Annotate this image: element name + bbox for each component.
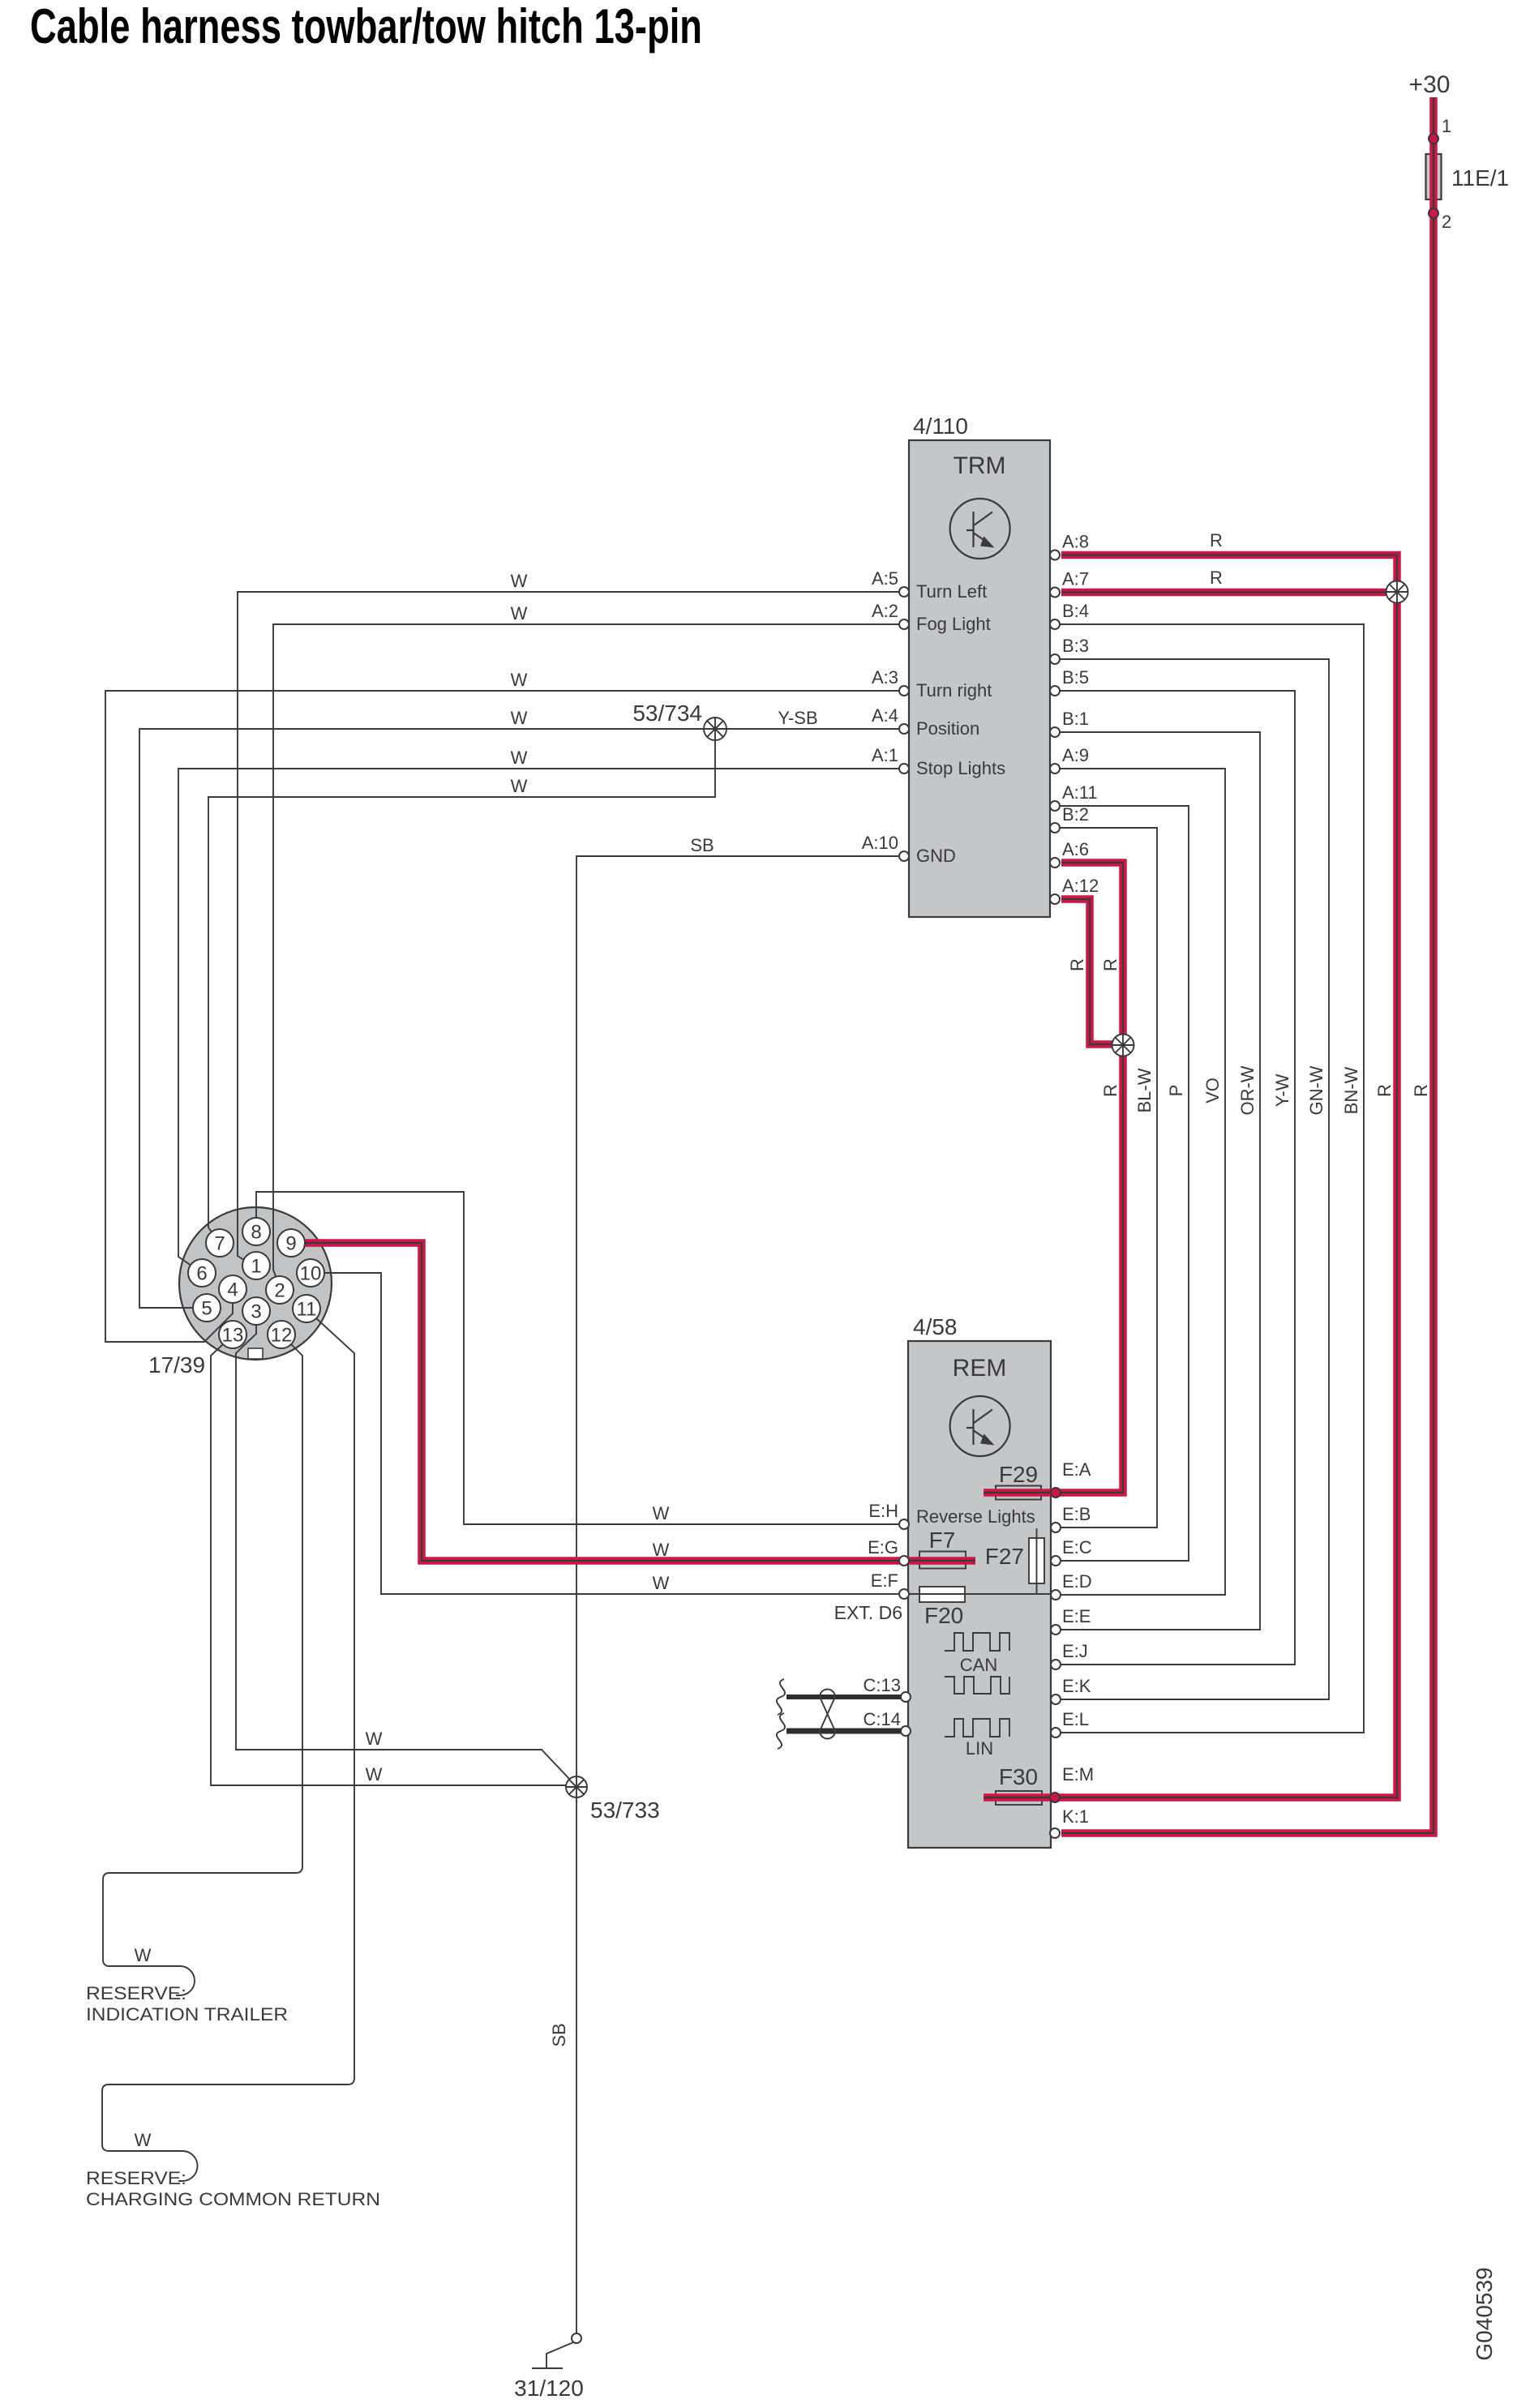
fuse F7 (919, 1552, 966, 1569)
svg-text:CHARGING COMMON RETURN: CHARGING COMMON RETURN (86, 2189, 380, 2209)
connector pin 5 (193, 1294, 221, 1322)
wire A:4 Position Y-SB / W through splice 53/734 to connector pin 5 (139, 729, 904, 1308)
svg-text:R: R (1210, 530, 1223, 551)
fuse 11E/1 pin 2 (1429, 208, 1438, 218)
svg-text:2: 2 (1442, 212, 1451, 232)
svg-text:E:D: E:D (1062, 1571, 1092, 1592)
twist symbol on C:13/C:14 (820, 1690, 835, 1739)
TRM pin A:3 (899, 686, 909, 696)
connector pin 12 (268, 1321, 295, 1348)
control unit TRM 4/110 box (909, 440, 1050, 917)
wire A:3 Turn right W to connector pin 4 (105, 691, 904, 1342)
wire A:2 Fog Light W to connector pin 2 (273, 624, 904, 1276)
svg-text:Turn Left: Turn Left (916, 581, 987, 602)
REM pin E:J (1051, 1660, 1061, 1669)
wire C:13 CAN high twisted pair (786, 1695, 906, 1699)
connector pin 13 (219, 1321, 246, 1348)
svg-text:2: 2 (274, 1280, 285, 1302)
svg-text:Stop Lights: Stop Lights (916, 758, 1005, 778)
splice 53/733 (566, 1776, 587, 1797)
svg-text:8: 8 (251, 1222, 261, 1244)
svg-text:B:3: B:3 (1062, 636, 1089, 656)
svg-text:B:5: B:5 (1062, 667, 1089, 688)
ground 31/120 symbol (546, 2342, 573, 2367)
REM pin E:M (1050, 1793, 1060, 1802)
break squiggle C:14 (777, 1713, 785, 1749)
svg-text:E:A: E:A (1062, 1459, 1091, 1480)
wire through F20 (919, 1593, 965, 1595)
svg-text:A:6: A:6 (1062, 839, 1089, 859)
wire B:3 GN-W to E:K (1055, 659, 1329, 1699)
svg-text:A:12: A:12 (1062, 876, 1099, 896)
connector pin 7 (206, 1229, 234, 1257)
wire TRM A:6 R down to REM E:A through fuse F29 (984, 863, 1123, 1493)
wire C:14 CAN low twisted pair (786, 1729, 906, 1734)
svg-text:W: W (135, 1945, 152, 1965)
REM pin C:13 (901, 1692, 911, 1702)
TRM pin A:5 (899, 587, 909, 597)
fuse F30 (996, 1791, 1042, 1805)
svg-text:Reverse Lights: Reverse Lights (916, 1506, 1035, 1527)
svg-text:53/733: 53/733 (590, 1797, 660, 1823)
svg-text:REM: REM (953, 1355, 1007, 1382)
svg-text:A:5: A:5 (872, 568, 898, 589)
svg-text:W: W (366, 1764, 383, 1785)
fuse F20 (919, 1587, 965, 1602)
splice 53/734 (704, 718, 726, 740)
wire through F27 (1036, 1538, 1038, 1583)
TRM pin B:1 (1050, 727, 1060, 737)
svg-text:BL-W: BL-W (1134, 1068, 1155, 1112)
REM pin E:C (1051, 1556, 1061, 1566)
svg-text:A:8: A:8 (1062, 532, 1089, 552)
svg-text:+30: +30 (1409, 71, 1451, 98)
REM pin E:K (1051, 1695, 1061, 1704)
connector 17/39 circle (179, 1207, 332, 1360)
svg-text:A:10: A:10 (862, 833, 898, 853)
svg-text:SB: SB (690, 835, 714, 855)
svg-text:Turn right: Turn right (916, 680, 992, 701)
svg-text:E:H: E:H (868, 1501, 898, 1521)
svg-text:1: 1 (1442, 116, 1451, 136)
svg-text:R: R (1100, 958, 1121, 971)
svg-text:A:11: A:11 (1062, 782, 1098, 803)
svg-text:W: W (511, 748, 528, 768)
svg-text:W: W (511, 670, 528, 690)
svg-text:B:4: B:4 (1062, 601, 1089, 621)
svg-text:31/120: 31/120 (514, 2376, 584, 2401)
control unit REM 4/58 box (908, 1341, 1051, 1848)
svg-text:A:1: A:1 (872, 745, 898, 765)
svg-text:F27: F27 (985, 1544, 1024, 1569)
wire A:11 P to E:C (1055, 806, 1189, 1561)
wire B:5 Y-W to E:J (1055, 691, 1295, 1665)
REM pin E:L (1051, 1728, 1061, 1737)
REM pin E:H (899, 1519, 909, 1529)
TRM pin B:2 (1050, 823, 1060, 833)
svg-text:W: W (135, 2130, 152, 2150)
wire +30 R feed through fuse 11E/1 down to REM K:1 (1061, 97, 1434, 1833)
splice node R (A:6/A:12) (1112, 1035, 1134, 1056)
svg-text:W: W (366, 1729, 383, 1749)
svg-text:E:J: E:J (1062, 1641, 1088, 1661)
svg-text:R: R (1374, 1084, 1395, 1097)
svg-text:E:F: E:F (871, 1570, 898, 1591)
wire TRM A:7 R to splice (1061, 589, 1397, 597)
connector pin 4 (219, 1275, 246, 1303)
svg-text:INDICATION TRAILER: INDICATION TRAILER (86, 2004, 288, 2025)
svg-text:1: 1 (251, 1256, 261, 1278)
svg-text:A:3: A:3 (872, 667, 898, 688)
TRM pin A:11 (1050, 801, 1060, 811)
svg-text:Fog Light: Fog Light (916, 614, 991, 634)
svg-text:A:2: A:2 (872, 601, 898, 621)
svg-text:W: W (653, 1503, 670, 1523)
svg-text:TRM: TRM (954, 452, 1006, 479)
svg-text:R: R (1100, 1084, 1121, 1097)
fuse 11E/1 (1426, 154, 1442, 199)
REM pin E:E (1051, 1625, 1061, 1635)
svg-text:E:M: E:M (1062, 1764, 1094, 1785)
svg-text:11E/1: 11E/1 (1451, 165, 1509, 191)
svg-text:R: R (1411, 1084, 1431, 1097)
connector pin 1 (242, 1252, 270, 1279)
svg-text:Position: Position (916, 718, 979, 739)
svg-text:RESERVE:: RESERVE: (86, 2168, 186, 2188)
svg-text:Cable harness towbar/tow hitch: Cable harness towbar/tow hitch 13-pin (30, 0, 702, 54)
REM pin K:1 (1050, 1828, 1060, 1838)
svg-text:BN-W: BN-W (1341, 1066, 1361, 1114)
wire A:1 Stop Lights W to connector pin 6 (178, 769, 904, 1266)
svg-text:B:1: B:1 (1062, 709, 1089, 729)
svg-text:W: W (511, 571, 528, 591)
wire connector pin 13 W to splice 53/733 (211, 1344, 567, 1785)
connector 17/39 notch (248, 1348, 263, 1359)
TRM pin A:6 (1050, 858, 1060, 868)
svg-text:4: 4 (227, 1279, 238, 1301)
svg-text:53/734: 53/734 (632, 701, 702, 726)
wire splice 53/734 W branch to connector pin 7 (208, 729, 715, 1233)
fuse 11E/1 pin 1 (1429, 134, 1438, 144)
REM pin E:A (1051, 1488, 1061, 1498)
svg-text:13: 13 (222, 1325, 244, 1347)
svg-text:E:C: E:C (1062, 1537, 1092, 1557)
svg-text:E:L: E:L (1062, 1709, 1089, 1729)
wire TRM A:8 R down to REM E:M through fuse F30 (984, 555, 1397, 1798)
wire TRM A:12 R to splice (1061, 899, 1123, 1044)
LIN symbol (945, 1719, 1009, 1737)
svg-text:Y-SB: Y-SB (778, 708, 817, 728)
svg-text:SB: SB (549, 2023, 569, 2046)
svg-text:E:B: E:B (1062, 1504, 1091, 1524)
break squiggle C:13 (777, 1679, 785, 1715)
TRM pin A:4 (899, 724, 909, 734)
ground terminal pin (572, 2333, 581, 2343)
connector pin 10 (297, 1259, 324, 1287)
REM pin C:14 (901, 1726, 911, 1736)
connector pin 11 (293, 1295, 320, 1322)
svg-text:B:2: B:2 (1062, 804, 1089, 825)
svg-text:K:1: K:1 (1062, 1806, 1089, 1827)
TRM pin B:5 (1050, 686, 1060, 696)
svg-text:12: 12 (271, 1325, 293, 1347)
wire connector pin 3 W to splice 53/733 (236, 1325, 570, 1780)
svg-text:W: W (511, 776, 528, 796)
svg-text:4/58: 4/58 (913, 1314, 958, 1339)
svg-text:GND: GND (916, 846, 956, 866)
svg-text:17/39: 17/39 (148, 1352, 205, 1378)
svg-text:10: 10 (300, 1263, 322, 1285)
svg-text:3: 3 (251, 1301, 261, 1323)
REM pin E:D (1051, 1590, 1061, 1600)
svg-text:EXT. D6: EXT. D6 (834, 1602, 902, 1623)
CAN symbol (945, 1633, 1009, 1694)
wire B:1 OR-W to E:E (1055, 732, 1260, 1630)
svg-text:9: 9 (285, 1233, 296, 1255)
transistor icon U-TRM (950, 499, 1010, 559)
svg-text:F29: F29 (999, 1462, 1038, 1487)
svg-text:11: 11 (297, 1299, 317, 1321)
svg-text:P: P (1166, 1085, 1186, 1097)
wire B:4 BN-W to E:L (1055, 624, 1364, 1733)
svg-text:F30: F30 (999, 1764, 1038, 1789)
svg-text:RESERVE:: RESERVE: (86, 1983, 186, 2003)
svg-text:GN-W: GN-W (1306, 1065, 1326, 1115)
svg-text:OR-W: OR-W (1237, 1065, 1258, 1115)
svg-text:4/110: 4/110 (913, 413, 968, 439)
TRM pin A:1 (899, 764, 909, 773)
wire A:5 Turn Left W to connector pin 1 (238, 592, 904, 1262)
svg-text:7: 7 (214, 1233, 225, 1255)
TRM pin B:3 (1050, 654, 1060, 664)
TRM pin A:8 (1050, 551, 1060, 560)
svg-text:F7: F7 (929, 1527, 956, 1553)
svg-text:G040539: G040539 (1472, 2267, 1497, 2360)
svg-text:W: W (653, 1540, 670, 1560)
TRM pin B:4 (1050, 619, 1060, 629)
svg-text:E:E: E:E (1062, 1606, 1091, 1626)
svg-text:F20: F20 (924, 1603, 963, 1628)
svg-text:A:7: A:7 (1062, 569, 1089, 589)
svg-text:Y-W: Y-W (1272, 1073, 1292, 1107)
svg-text:W: W (511, 603, 528, 623)
connector pin 2 (266, 1276, 294, 1304)
svg-text:A:9: A:9 (1062, 745, 1089, 765)
REM pin E:F (899, 1589, 909, 1599)
connector pin 8 (242, 1218, 270, 1245)
wire A:9 VO to E:D (1055, 769, 1225, 1595)
wire connector pin 9 R to REM E:G through fuse F7 (305, 1243, 975, 1561)
svg-text:5: 5 (201, 1298, 212, 1320)
wire connector pin 12 W to reserve indication trailer (103, 1344, 302, 1995)
REM pin E:G (899, 1556, 909, 1566)
svg-text:A:4: A:4 (872, 705, 898, 726)
connector pin 3 (242, 1297, 270, 1325)
svg-text:C:13: C:13 (864, 1675, 901, 1695)
REM pin E:B (1051, 1523, 1061, 1532)
svg-text:E:G: E:G (868, 1537, 898, 1557)
transistor icon U-REM (950, 1396, 1010, 1456)
wire F27 internal stub (1036, 1528, 1038, 1595)
wire A:10 GND SB to ground 31/120 through splice 53/733 (576, 856, 904, 2333)
svg-text:LIN: LIN (966, 1738, 993, 1759)
TRM pin A:9 (1050, 764, 1060, 773)
svg-text:W: W (653, 1573, 670, 1593)
fuse F29 (996, 1486, 1041, 1500)
svg-text:CAN: CAN (960, 1655, 997, 1675)
wire connector pin 11 W to reserve charging common return (102, 1318, 354, 2181)
wire B:2 BL-W to E:B (1055, 828, 1157, 1527)
svg-text:C:14: C:14 (864, 1709, 901, 1729)
wire connector pin 8 W to REM E:H Reverse Lights (256, 1192, 904, 1524)
connector pin 9 (277, 1229, 305, 1257)
svg-text:6: 6 (196, 1263, 207, 1285)
TRM pin A:2 (899, 619, 909, 629)
svg-text:W: W (511, 708, 528, 728)
TRM pin A:12 (1050, 894, 1060, 904)
TRM pin A:10 (899, 851, 909, 861)
TRM pin A:7 (1050, 588, 1060, 598)
svg-text:R: R (1067, 958, 1087, 971)
connector pin 6 (188, 1259, 216, 1287)
splice node R (A:7/A:8) (1386, 581, 1408, 603)
svg-text:VO: VO (1202, 1078, 1223, 1103)
svg-text:E:K: E:K (1062, 1676, 1091, 1696)
fuse F27 (1029, 1538, 1044, 1583)
wire connector pin 10 W to REM E:F and through F20 to E:D (324, 1273, 1056, 1594)
svg-text:R: R (1210, 568, 1223, 588)
